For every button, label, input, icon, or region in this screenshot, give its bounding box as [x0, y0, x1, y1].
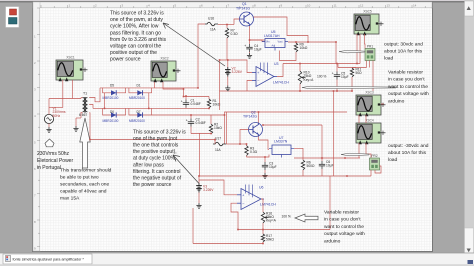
- svg-text:100 %: 100 %: [317, 75, 326, 79]
- svg-text:100 %: 100 %: [282, 215, 291, 219]
- svg-text:50Hz: 50Hz: [53, 114, 61, 118]
- svg-text:want to control the: want to control the: [324, 224, 364, 230]
- svg-text:filtering. It can control: filtering. It can control: [133, 169, 181, 175]
- svg-text:PR1: PR1: [367, 44, 373, 48]
- svg-text:XSC2: XSC2: [160, 57, 169, 61]
- svg-text:from 0v to 3.226 and this: from 0v to 3.226 and this: [110, 37, 167, 43]
- svg-text:output voltage with: output voltage with: [388, 91, 429, 97]
- svg-text:load: load: [388, 157, 398, 163]
- svg-text:+: +: [244, 44, 246, 48]
- svg-text:+: +: [332, 72, 334, 76]
- svg-text:output: -30vdc and: output: -30vdc and: [388, 143, 429, 149]
- svg-text:D1: D1: [137, 84, 141, 88]
- svg-text:10kΩ: 10kΩ: [300, 46, 308, 50]
- svg-text:the positive output),: the positive output),: [133, 149, 177, 155]
- svg-text:XSC4: XSC4: [365, 119, 374, 123]
- svg-text:Key=A: Key=A: [304, 78, 315, 82]
- svg-text:LM337N: LM337N: [274, 140, 288, 144]
- svg-text:10µF: 10µF: [254, 48, 262, 52]
- svg-text:Variable resistor: Variable resistor: [324, 210, 359, 216]
- svg-text:XSC5: XSC5: [363, 10, 372, 14]
- svg-text:cycle 100%, After low: cycle 100%, After low: [110, 24, 159, 30]
- svg-text:want to control the: want to control the: [388, 84, 428, 90]
- svg-text:MBR20100: MBR20100: [103, 119, 119, 123]
- svg-text:arduino: arduino: [324, 238, 341, 244]
- svg-text:XSC3: XSC3: [365, 91, 374, 95]
- svg-text:U6: U6: [259, 186, 264, 190]
- svg-text:U17: U17: [215, 137, 221, 141]
- svg-text:13: 13: [387, 4, 391, 8]
- svg-text:secundaries, each one: secundaries, each one: [60, 182, 109, 188]
- svg-text:voltage can control the: voltage can control the: [110, 44, 161, 50]
- svg-text:be able to put two: be able to put two: [60, 175, 99, 181]
- svg-text:MBR20100: MBR20100: [129, 119, 145, 123]
- svg-text:10µF: 10µF: [341, 75, 349, 79]
- svg-text:one of the pwm, at duty: one of the pwm, at duty: [110, 17, 163, 23]
- svg-text:10µF: 10µF: [269, 165, 277, 169]
- svg-text:the one that controls: the one that controls: [133, 143, 179, 149]
- svg-text:Variable resistor: Variable resistor: [388, 70, 423, 76]
- svg-text:0.048F: 0.048F: [191, 102, 201, 106]
- svg-text:This transformer should: This transformer should: [60, 168, 112, 174]
- svg-text:PR2: PR2: [371, 154, 377, 158]
- svg-text:XSC1: XSC1: [66, 56, 75, 60]
- svg-text:the power source: the power source: [133, 182, 172, 188]
- svg-text:This source of 3.226v is: This source of 3.226v is: [110, 11, 164, 17]
- svg-text:the negative output of: the negative output of: [133, 175, 182, 181]
- svg-text:arduino: arduino: [388, 98, 405, 104]
- svg-text:Vin: Vin: [266, 41, 270, 44]
- svg-text:Vout: Vout: [278, 41, 283, 44]
- svg-text:3.226V: 3.226V: [203, 188, 214, 192]
- svg-text:TIP142G: TIP142G: [243, 114, 257, 118]
- svg-text:capable of 40vac and: capable of 40vac and: [60, 189, 107, 195]
- svg-text:in case you don't: in case you don't: [388, 77, 425, 83]
- svg-text:Adj: Adj: [272, 45, 276, 48]
- svg-text:pass filtering. It can go: pass filtering. It can go: [110, 30, 161, 36]
- svg-text:U16: U16: [208, 17, 214, 21]
- svg-text:MBR20100: MBR20100: [103, 96, 119, 100]
- svg-text:at duty cycle 100%,: at duty cycle 100%,: [133, 156, 176, 162]
- svg-text:12: 12: [360, 4, 364, 8]
- svg-text:D5: D5: [110, 84, 114, 88]
- svg-text:10kΩ: 10kΩ: [214, 126, 222, 130]
- svg-text:TIP141G: TIP141G: [236, 6, 250, 10]
- svg-text:230Vrms 50hz: 230Vrms 50hz: [37, 151, 70, 157]
- svg-text:11A: 11A: [215, 148, 221, 152]
- svg-text:in case you don't: in case you don't: [324, 217, 361, 223]
- svg-text:6.667: 6.667: [79, 113, 87, 117]
- svg-text:in Portugal: in Portugal: [37, 165, 61, 171]
- svg-text:U3: U3: [274, 62, 279, 66]
- svg-text:Eletorical Power: Eletorical Power: [37, 158, 73, 164]
- svg-text:Key=A: Key=A: [266, 219, 277, 223]
- svg-text:11A: 11A: [210, 28, 216, 32]
- svg-text:0.3Ω: 0.3Ω: [231, 32, 239, 36]
- svg-text:11: 11: [334, 4, 337, 8]
- svg-text:output: 30vdc and: output: 30vdc and: [384, 42, 423, 48]
- svg-text:max 15A: max 15A: [60, 196, 80, 202]
- svg-text:+: +: [181, 100, 183, 104]
- svg-text:10: 10: [307, 4, 311, 8]
- svg-text:0.3Ω: 0.3Ω: [250, 150, 258, 154]
- svg-text:one of the pwm (not: one of the pwm (not: [133, 136, 178, 142]
- svg-text:output voltage with: output voltage with: [324, 231, 365, 237]
- svg-text:D7: D7: [137, 110, 141, 114]
- svg-text:load: load: [384, 56, 394, 62]
- svg-text:about 10A for this: about 10A for this: [384, 49, 423, 55]
- svg-text:about 10A for this: about 10A for this: [388, 150, 427, 156]
- svg-text:fonte simetrica ajustavel para: fonte simetrica ajustavel para amplifica…: [13, 257, 85, 261]
- svg-text:T1: T1: [83, 92, 87, 96]
- svg-text:3.226V: 3.226V: [232, 70, 243, 74]
- svg-text:MBR20100: MBR20100: [129, 96, 145, 100]
- svg-text:500Ω: 500Ω: [307, 164, 316, 168]
- svg-text:This source of 3.226v is: This source of 3.226v is: [133, 130, 186, 136]
- svg-text:power source: power source: [110, 57, 141, 63]
- svg-text:after low pass: after low pass: [133, 162, 164, 168]
- svg-text:LM741CH: LM741CH: [260, 202, 276, 206]
- svg-text:+: +: [186, 119, 188, 123]
- svg-text:50Ω: 50Ω: [356, 71, 363, 75]
- svg-text:0.048F: 0.048F: [196, 121, 206, 125]
- svg-text:LM741CH: LM741CH: [273, 80, 289, 84]
- svg-text:50kΩ: 50kΩ: [266, 238, 274, 242]
- svg-text:10µF: 10µF: [326, 164, 334, 168]
- svg-text:positive output of the: positive output of the: [110, 50, 157, 56]
- svg-text:D0: D0: [110, 110, 114, 114]
- svg-text:LM317AH: LM317AH: [264, 34, 280, 38]
- svg-text:14: 14: [413, 4, 417, 8]
